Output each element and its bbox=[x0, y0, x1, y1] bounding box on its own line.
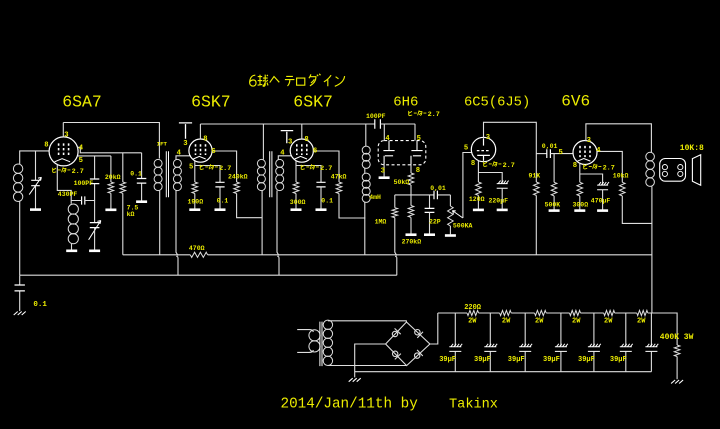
resistor R21 2W body bbox=[604, 310, 615, 315]
ground bar under C9 bbox=[497, 209, 508, 212]
resistor R2 7.5k bottom lead to B+ rail bbox=[122, 193, 124, 255]
svg-text:8: 8 bbox=[471, 160, 475, 168]
choke L3 bottom lead to B+ rail bbox=[364, 202, 366, 255]
svg-text:3: 3 bbox=[64, 131, 68, 139]
svg-text:8: 8 bbox=[203, 135, 207, 143]
pin 8 label V2 bbox=[203, 135, 207, 143]
capacitor C3 430PF plates bbox=[82, 196, 85, 204]
IFT1 primary winding bbox=[154, 159, 162, 190]
svg-text:6SK7: 6SK7 bbox=[191, 93, 231, 112]
pin 4 label V2 bbox=[177, 150, 182, 158]
bridge diode D3 bbox=[392, 328, 400, 336]
filter cap C18 top lead bbox=[625, 313, 627, 346]
label 39uF C18 bbox=[610, 356, 627, 364]
ground bar under R10 bbox=[445, 234, 456, 237]
label 430PF C3 bbox=[58, 191, 78, 198]
resistor R13 10k body bbox=[620, 182, 626, 196]
filter cap C19 bottom lead bbox=[650, 351, 652, 371]
pin 5 label 6H6 bbox=[417, 135, 421, 143]
power transformer primary leads bbox=[297, 330, 313, 353]
capacitor C4 0.1 plates bbox=[215, 182, 224, 187]
bridge diode D5 bbox=[393, 351, 401, 359]
resistor R1 20k top lead bbox=[110, 156, 112, 182]
pin 3 label 6C5 bbox=[486, 134, 490, 142]
label 22P C7 bbox=[429, 219, 441, 226]
B+ rail (left of 470ohm) bbox=[123, 254, 191, 256]
credit date text bbox=[281, 397, 419, 413]
filter cap C19 39uF electrolytic bbox=[645, 344, 658, 352]
ground bar under 6H6 pin3 bbox=[379, 176, 390, 179]
resistor R7 50k body bbox=[408, 173, 414, 185]
filter cap C17 top lead bbox=[593, 313, 595, 346]
svg-text:2W: 2W bbox=[535, 318, 544, 326]
label 0.01 C8 bbox=[430, 185, 446, 192]
capacitor C3 430PF leads bbox=[71, 200, 94, 202]
wire 6H6 pin3 to ground bbox=[383, 165, 385, 177]
label 47kohm R5 bbox=[331, 174, 347, 181]
6H6 diode D2 bbox=[411, 141, 423, 165]
ground bar under VC1 bbox=[30, 208, 41, 211]
variable capacitor VC1 arrow bbox=[29, 177, 41, 194]
svg-text:270kΩ: 270kΩ bbox=[402, 239, 422, 246]
variable capacitor VC1 plates bbox=[31, 180, 40, 185]
label 91K R11 bbox=[529, 173, 541, 180]
pin 4 label 6SA7 bbox=[79, 145, 84, 153]
svg-text:220Ω: 220Ω bbox=[464, 304, 482, 312]
wire 6V6 cathode bbox=[580, 163, 603, 185]
psu ground bus bbox=[355, 371, 652, 373]
resistor R12 120ohm body bbox=[476, 182, 482, 195]
grid cap T symbol V3 bbox=[281, 131, 294, 144]
choke L3 mid lead bbox=[364, 168, 366, 174]
label 39uF C13 bbox=[439, 356, 456, 364]
capacitor C6 100PF plates bbox=[375, 119, 381, 129]
tube V2 6SK7 envelope bbox=[189, 139, 212, 162]
ground bar under R6 bbox=[291, 208, 302, 211]
wire 6SA7 pin5 bbox=[78, 155, 111, 157]
wire osc node down to VC2 bbox=[94, 201, 96, 223]
label 2W R22 bbox=[637, 318, 646, 326]
wire 6C5 cathode bbox=[478, 160, 502, 183]
svg-text:2.7: 2.7 bbox=[428, 111, 440, 119]
svg-text:10kΩ: 10kΩ bbox=[613, 173, 629, 180]
label 470ohm R16 bbox=[189, 245, 205, 252]
speaker voice coil loops bbox=[662, 165, 683, 177]
svg-text:22P: 22P bbox=[429, 219, 441, 226]
label 39uF C17 bbox=[578, 356, 595, 364]
label 0.1 C12 bbox=[33, 301, 47, 309]
filter cap C19 top lead bbox=[650, 313, 652, 346]
svg-text:8: 8 bbox=[304, 136, 308, 144]
pin 4 label 6H6 bbox=[385, 135, 390, 143]
resistor R22 2W body bbox=[637, 310, 648, 315]
heater 2.7V label 6C5 bbox=[484, 161, 515, 170]
chassis ground below C12 bbox=[14, 312, 26, 316]
resistor R2 7.5k top lead bbox=[122, 153, 124, 182]
label tube V2 6SK7 bbox=[191, 93, 231, 112]
bridge diode D4 bbox=[415, 330, 423, 338]
label 470uF C11 bbox=[591, 197, 611, 204]
svg-text:5: 5 bbox=[417, 135, 421, 143]
top rail segment B (6SK7 plates / IFT2 / choke) bbox=[200, 123, 374, 125]
choke L3 upper section bbox=[362, 146, 370, 168]
filter cap C16 bottom lead bbox=[560, 351, 562, 371]
IFT2 primary winding bbox=[257, 159, 265, 190]
resistor R14 bottom lead bbox=[553, 196, 555, 210]
filter cap C15 top lead bbox=[524, 313, 526, 346]
wire OPT bottom to B+ riser bbox=[651, 186, 653, 313]
heater 2.7V label V3 bbox=[301, 164, 332, 173]
label tube V3 6SK7 bbox=[293, 93, 333, 112]
svg-text:2.7: 2.7 bbox=[603, 165, 615, 173]
svg-text:0.1: 0.1 bbox=[33, 301, 47, 309]
label 270kohm R8 bbox=[402, 239, 422, 246]
heater 2.7V label 6SA7 bbox=[53, 167, 84, 176]
capacitor C9 220uF electrolytic bbox=[497, 181, 509, 189]
pin 4 label V3 bbox=[280, 150, 285, 158]
resistor R15 bottom lead bbox=[579, 196, 581, 210]
wire 6H6 pin8 to 50k bbox=[410, 165, 412, 173]
capacitor C9 bottom lead bbox=[501, 188, 503, 209]
svg-text:10K:8: 10K:8 bbox=[680, 144, 704, 153]
wire bridge negative to psu ground bus bbox=[355, 344, 386, 377]
svg-text:39μF: 39μF bbox=[439, 356, 456, 364]
svg-text:400K 3W: 400K 3W bbox=[660, 333, 694, 342]
capacitor C5 0.1 plates bbox=[316, 182, 325, 187]
resistor R11 bottom lead to B+ rail bbox=[535, 195, 537, 254]
capacitor C1 100PF leads bbox=[94, 156, 96, 201]
ground bar under C5 bbox=[316, 208, 327, 211]
svg-text:430PF: 430PF bbox=[58, 191, 78, 198]
wire bridge positive to filter chain bbox=[430, 313, 438, 344]
label 7.5 R2 bbox=[127, 205, 139, 212]
svg-text:0.1: 0.1 bbox=[217, 198, 229, 205]
power transformer primary loops bbox=[309, 330, 320, 352]
label 400K 3W R23 bbox=[660, 333, 694, 342]
wire 6SA7 cathode to osc coil bbox=[57, 165, 71, 204]
label 300ohm R15 bbox=[573, 202, 589, 209]
pin 6 label V3 bbox=[313, 147, 317, 155]
label 0.01 C10 bbox=[542, 143, 558, 150]
variable capacitor VC2 arrow bbox=[89, 221, 101, 240]
label 50kohm R7 bbox=[394, 179, 410, 186]
capacitor C5 bottom lead bbox=[320, 187, 322, 209]
capacitor C11 470uF electrolytic bbox=[597, 182, 609, 190]
label 100PF C6 bbox=[366, 113, 386, 120]
filter cap C17 bottom lead bbox=[593, 351, 595, 371]
pin 8 label 6SA7 bbox=[44, 142, 48, 150]
svg-text:39μF: 39μF bbox=[508, 356, 525, 364]
ground bar under R8 bbox=[406, 233, 417, 236]
svg-text:500K: 500K bbox=[545, 202, 561, 209]
output transformer primary bbox=[646, 152, 655, 186]
resistor R6 300ohm body bbox=[293, 182, 299, 194]
resistor R11 91K body bbox=[534, 182, 540, 195]
filter cap C15 bottom lead bbox=[524, 351, 526, 371]
filter chain wire seg5 bbox=[615, 312, 637, 314]
label kohm R2 bbox=[127, 211, 135, 218]
label 2W R19 bbox=[535, 318, 544, 326]
svg-text:2.7: 2.7 bbox=[219, 165, 231, 173]
svg-text:39μF: 39μF bbox=[543, 356, 560, 364]
svg-text:500KA: 500KA bbox=[453, 222, 473, 229]
wire V3 cathode bbox=[296, 161, 321, 182]
filter cap C16 39uF electrolytic bbox=[555, 344, 568, 352]
label tube V5 6C5(6J5) bbox=[464, 94, 530, 110]
filter chain wire seg3 bbox=[546, 312, 569, 314]
wire V2 pin8 riser to rail bbox=[199, 124, 201, 140]
bridge diode D6 bbox=[415, 350, 423, 358]
tube V3 6SK7 envelope bbox=[290, 139, 313, 162]
title 6-kyu heterodyne (Japanese) bbox=[250, 74, 345, 87]
label 0.1 C5 bbox=[321, 197, 333, 204]
pin 6 label V2 bbox=[211, 148, 215, 156]
svg-text:39μF: 39μF bbox=[610, 356, 627, 364]
svg-text:8: 8 bbox=[416, 167, 420, 175]
svg-text:0,01: 0,01 bbox=[430, 185, 446, 192]
wire C6 to 6H6 pins 4,5 bbox=[380, 124, 415, 141]
resistor R4 190ohm body bbox=[192, 182, 198, 194]
svg-text:8: 8 bbox=[573, 162, 577, 170]
variable capacitor VC2 plates bbox=[90, 223, 100, 228]
power transformer core bbox=[320, 322, 322, 367]
filter cap C13 top lead bbox=[454, 313, 456, 346]
svg-text:5: 5 bbox=[559, 149, 563, 157]
capacitor C11 bottom lead bbox=[602, 190, 604, 210]
svg-text:120Ω: 120Ω bbox=[469, 196, 485, 203]
svg-text:6C5(6J5): 6C5(6J5) bbox=[464, 94, 530, 110]
label 39uF C16 bbox=[543, 356, 560, 364]
svg-text:2W: 2W bbox=[604, 318, 613, 326]
6H6 diode D1 bbox=[383, 141, 394, 165]
resistor R20 2W body bbox=[570, 310, 581, 315]
svg-text:6: 6 bbox=[313, 147, 317, 155]
svg-text:4: 4 bbox=[177, 150, 182, 158]
label 2W R18 bbox=[502, 318, 511, 326]
wire wiper to 6C5 grid bbox=[463, 153, 472, 219]
wire antenna coil bottom to ground bus bbox=[19, 202, 21, 276]
svg-text:470Ω: 470Ω bbox=[189, 245, 205, 252]
label 2W R21 bbox=[604, 318, 613, 326]
ground bar under R15 bbox=[574, 209, 585, 212]
svg-text:2.7: 2.7 bbox=[320, 165, 332, 173]
filter cap C18 39uF electrolytic bbox=[620, 344, 633, 352]
wire R7 to junction bbox=[410, 185, 412, 206]
resistor R5 bottom lead joins choke bbox=[339, 194, 365, 219]
svg-text:3: 3 bbox=[486, 134, 490, 142]
pin 3 label V2 bbox=[183, 140, 187, 148]
chassis ground below R23 bbox=[671, 380, 683, 384]
ground bar under C2 bbox=[136, 200, 147, 203]
svg-text:4: 4 bbox=[596, 147, 601, 155]
pin 8 label 6H6 bbox=[416, 167, 420, 175]
AC bypass capacitor C12 leads bbox=[19, 275, 21, 311]
svg-text:3: 3 bbox=[183, 140, 187, 148]
B+ rail (right of 470ohm) bbox=[208, 254, 652, 256]
choke L3 lower section bbox=[362, 173, 370, 202]
IFT2 secondary bottom lead (hops rail) to bus bbox=[277, 191, 279, 276]
svg-text:2W: 2W bbox=[502, 318, 511, 326]
resistor R6 bottom lead bbox=[295, 194, 297, 209]
svg-text:6: 6 bbox=[211, 148, 215, 156]
label tube V6 6V6 bbox=[561, 93, 590, 111]
svg-text:5: 5 bbox=[189, 164, 193, 172]
svg-text:190Ω: 190Ω bbox=[188, 199, 204, 206]
label 220ohm R17 bbox=[464, 304, 482, 312]
label 20kohm R1 bbox=[105, 174, 121, 181]
power transformer secondary loops bbox=[323, 320, 332, 365]
filter cap C16 top lead bbox=[560, 313, 562, 346]
label 4mH L3 bbox=[369, 194, 381, 201]
capacitor C10 0.01 plates bbox=[547, 149, 551, 158]
svg-text:6H6: 6H6 bbox=[393, 94, 418, 110]
wire 6C5 plate rail bbox=[484, 122, 537, 182]
filter cap C14 top lead bbox=[489, 313, 491, 346]
svg-text:0.1: 0.1 bbox=[321, 197, 333, 204]
resistor R3 240k body bbox=[234, 182, 240, 194]
resistor R23 bottom lead bbox=[676, 357, 678, 380]
svg-text:6V6: 6V6 bbox=[561, 93, 590, 111]
antenna coil L1 bbox=[13, 164, 22, 202]
label IFT1 bbox=[157, 140, 168, 147]
resistor R3 240k bottom lead bbox=[237, 194, 262, 218]
label 39uF C14 bbox=[474, 356, 491, 364]
ground bar under R4 bbox=[189, 208, 200, 211]
svg-text:3: 3 bbox=[288, 139, 292, 147]
VC2 bottom lead bbox=[94, 228, 96, 250]
svg-text:300Ω: 300Ω bbox=[573, 202, 589, 209]
IFT2 primary top lead from rail bbox=[262, 124, 264, 160]
pin 8 label 6V6 bbox=[573, 162, 577, 170]
svg-text:240kΩ: 240kΩ bbox=[228, 174, 248, 181]
resistor R9 bottom lead (hops rail) to bus bbox=[395, 218, 397, 276]
IFT2 secondary top to 6SK7#2 grid bbox=[278, 156, 292, 160]
wire secondary top to bridge bbox=[328, 321, 407, 322]
filter chain wire seg2 bbox=[511, 312, 534, 314]
IFT2 secondary winding bbox=[276, 159, 284, 190]
svg-text:2014/Jan/11th by: 2014/Jan/11th by bbox=[281, 397, 419, 413]
capacitor C12 0.1 plates bbox=[15, 285, 25, 291]
svg-text:470μF: 470μF bbox=[591, 197, 611, 204]
potentiometer R10 bottom lead bbox=[449, 226, 451, 234]
ground bar under VC2 bbox=[89, 250, 100, 253]
6C5 internal electrodes bbox=[477, 138, 491, 161]
label 500K R14 bbox=[545, 202, 561, 209]
filter cap C14 39uF electrolytic bbox=[484, 344, 497, 352]
resistor R19 2W body bbox=[535, 310, 547, 315]
resistor R18 2W body bbox=[500, 310, 512, 315]
wire to volume pot bbox=[449, 195, 451, 206]
heater 2.7V label V2 bbox=[200, 164, 231, 173]
resistor R1 20k body bbox=[108, 182, 114, 193]
label 100PF C1 bbox=[74, 180, 94, 187]
wire 6SA7 plate pin3 riser bbox=[62, 123, 64, 138]
filter cap C15 39uF electrolytic bbox=[519, 344, 532, 352]
wire C10 to 6V6 grid bbox=[550, 153, 573, 155]
svg-text:4: 4 bbox=[79, 145, 84, 153]
resistor R5 47k body bbox=[336, 182, 342, 194]
svg-text:IFT: IFT bbox=[157, 140, 168, 147]
osc coil bottom lead bbox=[71, 244, 73, 250]
wire 6V6 screen pin4 bbox=[597, 151, 623, 182]
resistor R8 bottom lead bbox=[410, 217, 412, 233]
pin 3 label 6SA7 bbox=[64, 131, 68, 139]
resistor R12 bottom lead bbox=[477, 195, 479, 208]
label 0.1 C2 bbox=[130, 171, 142, 178]
resistor R9 1M top lead bbox=[394, 195, 396, 208]
filter chain wire seg0 bbox=[438, 312, 467, 314]
speaker body bbox=[660, 159, 686, 182]
capacitor C2 0.1 plates bbox=[137, 179, 147, 184]
resistor R13 bottom lead to B+ bbox=[622, 196, 652, 224]
svg-text:220μF: 220μF bbox=[489, 198, 509, 205]
svg-text:0.1: 0.1 bbox=[130, 171, 142, 178]
svg-text:2W: 2W bbox=[468, 318, 477, 326]
detector output line bbox=[395, 194, 451, 196]
svg-text:1MΩ: 1MΩ bbox=[375, 218, 387, 225]
label 220uF C9 bbox=[489, 198, 509, 205]
svg-text:4mH: 4mH bbox=[369, 194, 381, 201]
pin 5 label V2 bbox=[189, 164, 193, 172]
svg-text:0,01: 0,01 bbox=[542, 143, 558, 150]
wire 6SA7 pin4 screen bbox=[77, 147, 141, 153]
wire 6V6 grid drop bbox=[553, 154, 555, 183]
tube V4 6H6 envelope (dashed) bbox=[378, 141, 426, 165]
filter cap C18 bottom lead bbox=[625, 351, 627, 371]
capacitor C7 22P top lead bbox=[429, 195, 431, 209]
filter chain wire seg4 bbox=[581, 312, 604, 314]
pin 3 label 6V6 bbox=[587, 137, 591, 145]
label 10kohm R13 bbox=[613, 173, 629, 180]
resistor R9 1M body bbox=[392, 208, 398, 218]
ground bar under C7 bbox=[424, 233, 435, 236]
tube V5 6C5 envelope bbox=[471, 137, 495, 161]
potentiometer R10 wiper arrow bbox=[452, 211, 463, 218]
filter cap C13 bottom lead bbox=[454, 351, 456, 371]
variable capacitor VC1 stem bbox=[35, 151, 37, 209]
svg-text:39μF: 39μF bbox=[578, 356, 595, 364]
svg-text:2W: 2W bbox=[637, 318, 646, 326]
svg-text:4: 4 bbox=[280, 150, 285, 158]
pin 8 label 6C5 bbox=[471, 160, 475, 168]
label 39uF C15 bbox=[508, 356, 525, 364]
IFT1 primary bottom lead to B+ rail bbox=[159, 191, 161, 255]
IFT1 core bbox=[166, 151, 168, 197]
filter cap C14 bottom lead bbox=[489, 351, 491, 371]
svg-text:3: 3 bbox=[587, 137, 591, 145]
pin 5 label 6V6 bbox=[559, 149, 563, 157]
tube V1 6SA7 envelope bbox=[49, 137, 78, 166]
speaker cone bbox=[692, 155, 700, 186]
wire antenna top to 6SA7 grid pin8 bbox=[20, 151, 50, 164]
ground bar under R14 bbox=[549, 209, 560, 212]
wire V2 plate pin6 bbox=[212, 151, 237, 182]
label 2W R20 bbox=[572, 318, 581, 326]
label 240kohm R3 bbox=[228, 174, 248, 181]
main ground bus bbox=[20, 274, 397, 276]
resistor R16 470ohm body bbox=[190, 252, 207, 257]
svg-text:4: 4 bbox=[385, 135, 390, 143]
wire V3 pin8 riser to rail bbox=[301, 124, 303, 140]
svg-text:91K: 91K bbox=[529, 173, 541, 180]
svg-text:5: 5 bbox=[464, 144, 468, 152]
resistor R23 400K body bbox=[674, 345, 680, 357]
svg-text:20kΩ: 20kΩ bbox=[105, 174, 121, 181]
heater 2.7V label 6V6 bbox=[584, 164, 615, 173]
wire V3 plate pin6 bbox=[313, 151, 339, 182]
IFT1 secondary bottom lead (hops rail) to bus bbox=[176, 191, 178, 276]
svg-text:8: 8 bbox=[44, 142, 48, 150]
